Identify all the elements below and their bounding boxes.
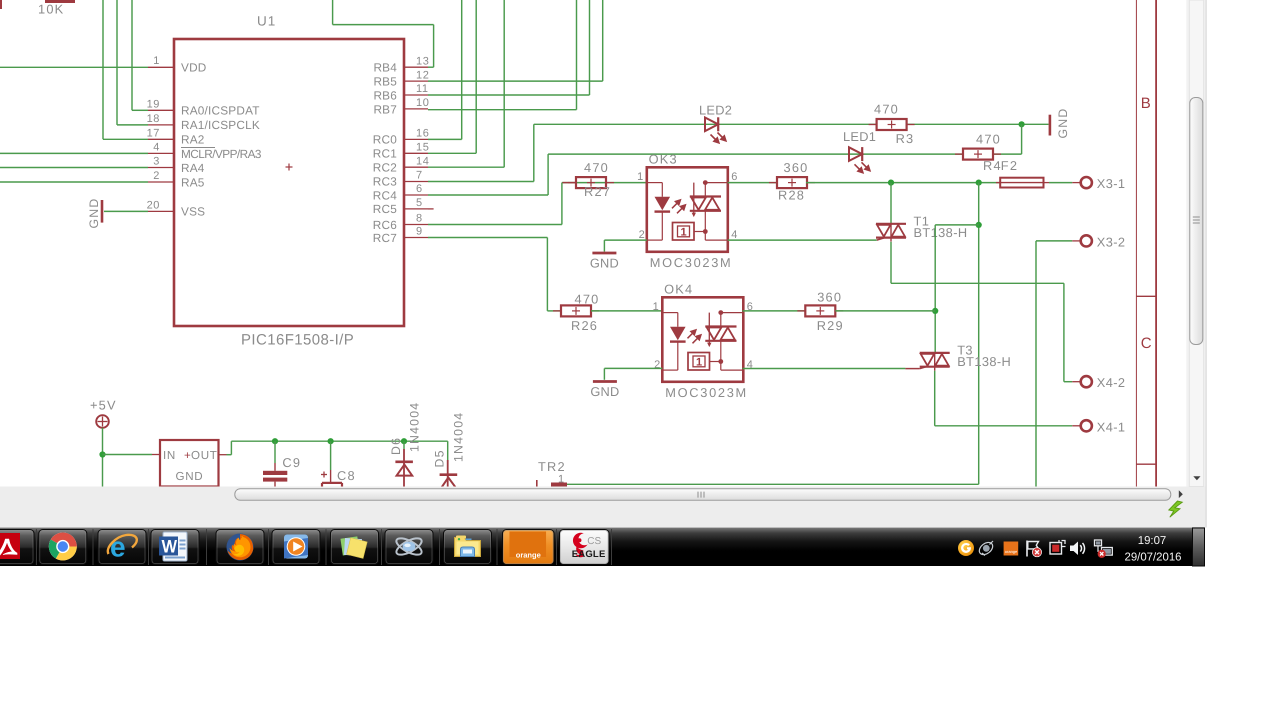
svg-text:orange: orange xyxy=(516,551,541,560)
svg-text:7: 7 xyxy=(416,170,423,182)
svg-text:8: 8 xyxy=(416,213,423,225)
svg-text:RA4: RA4 xyxy=(181,161,205,175)
svg-text:X4-1: X4-1 xyxy=(1097,419,1126,434)
svg-text:BT138-H: BT138-H xyxy=(957,354,1011,369)
svg-text:RC6: RC6 xyxy=(373,218,397,232)
svg-text:C8: C8 xyxy=(337,468,356,483)
svg-text:RC3: RC3 xyxy=(373,175,397,189)
svg-text:5: 5 xyxy=(416,197,423,209)
svg-text:VSS: VSS xyxy=(181,205,205,219)
svg-text:B: B xyxy=(1141,95,1151,112)
svg-text:U1: U1 xyxy=(257,14,276,29)
svg-text:1: 1 xyxy=(653,301,659,313)
svg-text:1N4004: 1N4004 xyxy=(452,412,466,462)
svg-text:R28: R28 xyxy=(778,188,805,203)
svg-text:470: 470 xyxy=(874,102,899,117)
svg-text:EAGLE: EAGLE xyxy=(572,549,606,560)
svg-text:TR2: TR2 xyxy=(538,459,566,474)
svg-text:470: 470 xyxy=(575,292,600,307)
svg-text:RC1: RC1 xyxy=(373,147,397,161)
svg-text:OK4: OK4 xyxy=(664,282,693,297)
svg-text:10: 10 xyxy=(416,97,429,109)
svg-text:OK3: OK3 xyxy=(649,152,678,167)
svg-text:360: 360 xyxy=(817,290,842,305)
svg-text:MCLR/VPP/RA3: MCLR/VPP/RA3 xyxy=(181,147,262,161)
svg-text:1: 1 xyxy=(153,55,160,67)
svg-text:RB5: RB5 xyxy=(373,75,397,89)
svg-text:R4: R4 xyxy=(983,158,1002,173)
svg-text:17: 17 xyxy=(147,128,160,140)
svg-text:RB6: RB6 xyxy=(373,88,397,102)
svg-text:1N4004: 1N4004 xyxy=(408,402,422,452)
svg-text:RA5: RA5 xyxy=(181,175,205,189)
svg-text:LED2: LED2 xyxy=(699,103,732,118)
svg-text:R29: R29 xyxy=(817,318,844,333)
svg-text:GND: GND xyxy=(590,256,619,271)
svg-text:2: 2 xyxy=(654,359,660,371)
svg-text:D6: D6 xyxy=(389,437,403,455)
svg-text:RA1/ICSPCLK: RA1/ICSPCLK xyxy=(181,118,260,132)
svg-text:1: 1 xyxy=(696,357,702,369)
svg-text:3: 3 xyxy=(153,156,160,168)
svg-text:OUT: OUT xyxy=(191,449,218,462)
svg-text:12: 12 xyxy=(416,69,429,81)
svg-text:20: 20 xyxy=(147,200,160,212)
svg-text:19: 19 xyxy=(147,99,160,111)
svg-text:R27: R27 xyxy=(584,184,611,199)
svg-text:X3-2: X3-2 xyxy=(1097,234,1126,249)
svg-text:RA2: RA2 xyxy=(181,133,205,147)
svg-text:15: 15 xyxy=(416,142,429,154)
svg-text:10K: 10K xyxy=(38,2,64,17)
svg-text:X4-2: X4-2 xyxy=(1097,375,1126,390)
svg-text:CS: CS xyxy=(587,536,601,547)
svg-text:19:07: 19:07 xyxy=(1138,535,1167,547)
svg-text:+: + xyxy=(184,449,191,462)
svg-text:9: 9 xyxy=(416,226,423,238)
svg-text:LED1: LED1 xyxy=(843,129,876,144)
svg-text:MOC3023M: MOC3023M xyxy=(650,255,733,270)
svg-text:GND: GND xyxy=(1056,108,1070,139)
svg-text:RC0: RC0 xyxy=(373,133,397,147)
svg-text:BT138-H: BT138-H xyxy=(914,225,968,240)
svg-text:IN: IN xyxy=(163,449,176,462)
svg-text:470: 470 xyxy=(976,132,1001,147)
svg-text:2: 2 xyxy=(639,229,645,241)
svg-text:1: 1 xyxy=(558,473,564,485)
svg-text:13: 13 xyxy=(416,55,429,67)
svg-text:14: 14 xyxy=(416,155,429,167)
svg-text:F2: F2 xyxy=(1001,158,1018,173)
svg-text:VDD: VDD xyxy=(181,61,207,75)
svg-text:6: 6 xyxy=(416,183,423,195)
svg-text:4: 4 xyxy=(731,229,737,241)
svg-text:470: 470 xyxy=(584,160,609,175)
svg-text:C9: C9 xyxy=(282,455,301,470)
svg-text:MOC3023M: MOC3023M xyxy=(665,385,748,400)
svg-text:PIC16F1508-I/P: PIC16F1508-I/P xyxy=(241,332,354,349)
svg-text:X3-1: X3-1 xyxy=(1097,176,1126,191)
svg-text:orange: orange xyxy=(1005,549,1018,554)
svg-text:RB7: RB7 xyxy=(373,102,397,116)
svg-text:RC2: RC2 xyxy=(373,161,397,175)
svg-text:11: 11 xyxy=(416,83,429,95)
svg-text:RA0/ICSPDAT: RA0/ICSPDAT xyxy=(181,104,260,118)
svg-text:RB4: RB4 xyxy=(373,61,397,75)
svg-text:RC5: RC5 xyxy=(373,202,397,216)
svg-text:16: 16 xyxy=(416,128,429,140)
svg-text:4: 4 xyxy=(153,142,160,154)
svg-text:GND: GND xyxy=(590,384,619,399)
svg-text:1: 1 xyxy=(681,227,687,239)
svg-text:R26: R26 xyxy=(571,318,598,333)
svg-text:D5: D5 xyxy=(432,449,446,467)
svg-text:29/07/2016: 29/07/2016 xyxy=(1124,552,1181,564)
svg-text:C: C xyxy=(1141,335,1152,352)
svg-text:+5V: +5V xyxy=(90,398,117,413)
svg-text:RC7: RC7 xyxy=(373,231,397,245)
svg-text:GND: GND xyxy=(87,198,101,229)
svg-text:RC4: RC4 xyxy=(373,188,397,202)
svg-text:6: 6 xyxy=(731,171,737,183)
svg-text:R3: R3 xyxy=(896,131,915,146)
svg-text:2: 2 xyxy=(153,170,160,182)
svg-text:360: 360 xyxy=(784,160,809,175)
svg-text:GND: GND xyxy=(176,470,204,483)
svg-text:1: 1 xyxy=(637,171,643,183)
svg-text:18: 18 xyxy=(147,113,160,125)
